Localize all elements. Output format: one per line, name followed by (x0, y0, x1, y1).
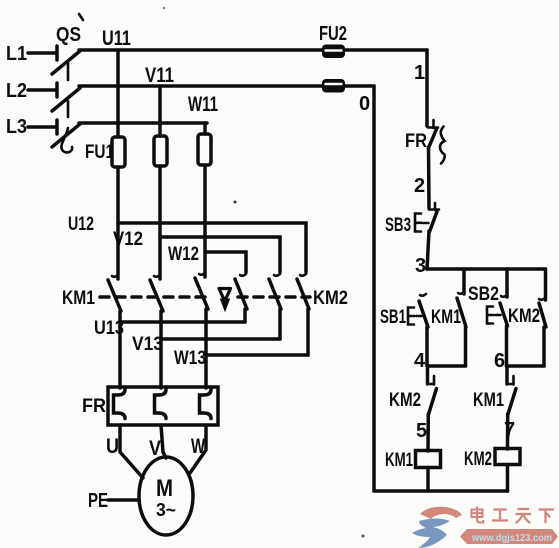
contactor KM1 main contact 2 (150, 275, 163, 388)
wire FR to motor U (120, 425, 143, 478)
coil KM2 (464, 449, 520, 492)
FR heater element 1 (114, 390, 126, 419)
motor M 3~ (139, 457, 193, 535)
terminal L2 (6, 80, 57, 102)
svg-text:SB1: SB1 (380, 307, 406, 328)
svg-text:V11: V11 (145, 64, 174, 87)
watermark text (460, 507, 558, 545)
svg-text:U11: U11 (102, 27, 131, 50)
wire bus W11 (L3 phase) (79, 93, 218, 123)
svg-text:U: U (106, 435, 119, 458)
net W13 wire (174, 348, 308, 369)
svg-text:KM1: KM1 (62, 288, 95, 309)
net 5 wire (416, 414, 428, 451)
contactor KM2 main contact 1 (235, 274, 247, 322)
wire bus U11 (L1 phase) (79, 27, 427, 50)
svg-text:5: 5 (416, 420, 427, 442)
wire FR to motor V (161, 425, 166, 458)
net 2 wire (414, 147, 429, 208)
stop button SB3 (NC) (385, 203, 439, 236)
svg-text:L1: L1 (6, 43, 27, 65)
fuse FU2 pole 2 (322, 79, 345, 93)
terminal L1 (6, 43, 57, 65)
svg-text:KM2: KM2 (464, 449, 492, 470)
net W12 wire to KM2 (168, 244, 246, 272)
interlock contact KM2 NC (389, 366, 437, 415)
coil KM1 (385, 450, 441, 491)
thermal relay FR NC contact (405, 120, 445, 164)
svg-text:FR: FR (405, 131, 427, 152)
watermark logo (412, 507, 462, 548)
aux contact KM2 self-hold (NO) (508, 269, 546, 366)
svg-text:2: 2 (414, 175, 425, 197)
net V13 wire (132, 334, 280, 355)
thermal overload relay FR heater box (82, 387, 218, 425)
svg-text:FU1: FU1 (85, 142, 114, 163)
fuse FU2 pole 1 (322, 45, 345, 59)
svg-text:7: 7 (504, 419, 515, 441)
speck artifacts (234, 201, 237, 204)
FR heater element 2 (155, 390, 167, 419)
svg-text:3~: 3~ (156, 500, 176, 520)
svg-text:1: 1 (414, 62, 425, 84)
svg-text:SB3: SB3 (385, 215, 411, 236)
svg-text:0: 0 (359, 93, 370, 115)
net 4 wire and junction row (414, 327, 466, 372)
net V12 wire to KM2 (113, 229, 280, 272)
svg-text:W: W (191, 435, 205, 458)
svg-text:U12: U12 (68, 214, 94, 235)
svg-text:KM1: KM1 (431, 307, 461, 328)
contactor KM2 main contact 3 (297, 274, 309, 355)
start button SB2 (NO) (468, 269, 508, 326)
svg-text:KM1: KM1 (473, 390, 504, 411)
svg-text:FU2: FU2 (319, 23, 347, 45)
net U13 wire (94, 318, 245, 339)
terminal PE (88, 490, 139, 512)
net 6 wire and junction row (494, 326, 544, 372)
svg-text:FR: FR (82, 396, 106, 417)
svg-text:QS: QS (56, 24, 81, 46)
svg-text:V12: V12 (113, 229, 143, 250)
net 0 rail (359, 86, 374, 491)
motor terminal labels U V W (106, 435, 205, 460)
svg-text:SB2: SB2 (468, 284, 499, 305)
svg-text:L2: L2 (6, 80, 27, 102)
wire bottom rail (374, 489, 508, 493)
svg-text:PE: PE (88, 490, 108, 512)
fuse FU1 pole 1 (112, 50, 125, 279)
net 1 wire (414, 50, 427, 126)
svg-text:U13: U13 (94, 318, 124, 339)
aux contact KM1 self-hold (NO) (431, 269, 466, 366)
contactor KM1 main contact 1 (108, 275, 121, 388)
net 7 wire (504, 414, 515, 449)
contactor KM1 main contact 3 (195, 273, 208, 388)
svg-text:KM2: KM2 (389, 390, 421, 411)
mechanical interlock symbol (219, 289, 231, 312)
contactor KM2 main contact 2 (269, 274, 281, 339)
net 3 wire and junction row (415, 231, 546, 277)
svg-text:L3: L3 (6, 116, 27, 138)
svg-text:www.dgjs123.com: www.dgjs123.com (471, 532, 552, 544)
KM2 linkage dashed line and label (238, 288, 348, 309)
wire FR to motor W (190, 425, 206, 473)
wire bus V11 (L2 phase) (79, 64, 374, 87)
FR heater element 3 (200, 390, 212, 419)
svg-text:M: M (156, 475, 173, 502)
start button SB1 (NO) (380, 294, 428, 328)
svg-text:KM2: KM2 (508, 306, 540, 327)
fuse FU1 pole 3 (198, 123, 211, 277)
svg-text:KM2: KM2 (313, 288, 348, 309)
svg-text:4: 4 (414, 350, 426, 372)
svg-text:V13: V13 (132, 334, 163, 355)
KM1 linkage dashed line and label (62, 288, 212, 309)
interlock contact KM1 NC (473, 366, 516, 415)
svg-text:6: 6 (494, 350, 505, 372)
net U12 wire to KM2 (68, 214, 306, 272)
svg-text:W13: W13 (174, 348, 206, 369)
fuse FU1 pole 2 (154, 86, 167, 279)
svg-text:W12: W12 (168, 244, 199, 265)
svg-text:KM1: KM1 (385, 450, 413, 471)
svg-text:W11: W11 (188, 93, 218, 116)
terminal L3 (6, 116, 57, 138)
disconnect switch QS (52, 14, 83, 152)
svg-text:3: 3 (415, 255, 426, 277)
